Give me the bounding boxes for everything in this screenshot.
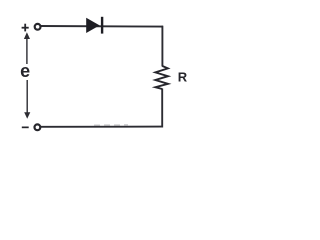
resistor R zigzag	[155, 66, 168, 89]
svg-text:e: e	[20, 61, 30, 81]
wire bottom (bottom-right corner to − terminal)	[41, 126, 163, 128]
wire right (top-right corner down to resistor top)	[161, 26, 163, 67]
down arrow (voltage e polarity)	[24, 80, 30, 119]
scan artifact faint dashes under bottom wire	[94, 124, 128, 126]
plus sign (+) polarity label	[22, 24, 29, 32]
minus sign (−) polarity label	[22, 127, 29, 129]
diode D1 (triangle anode + cathode bar)	[86, 17, 103, 34]
terminal T2 (−) open circle bottom-left	[35, 124, 41, 130]
wire top (anode side, from + terminal to top-right corner)	[41, 25, 164, 28]
wire right (resistor bottom to bottom-right corner)	[161, 89, 163, 128]
svg-text:R: R	[178, 69, 188, 84]
up arrow (voltage e polarity)	[24, 32, 30, 64]
terminal T1 (+) open circle top-left	[35, 24, 41, 30]
